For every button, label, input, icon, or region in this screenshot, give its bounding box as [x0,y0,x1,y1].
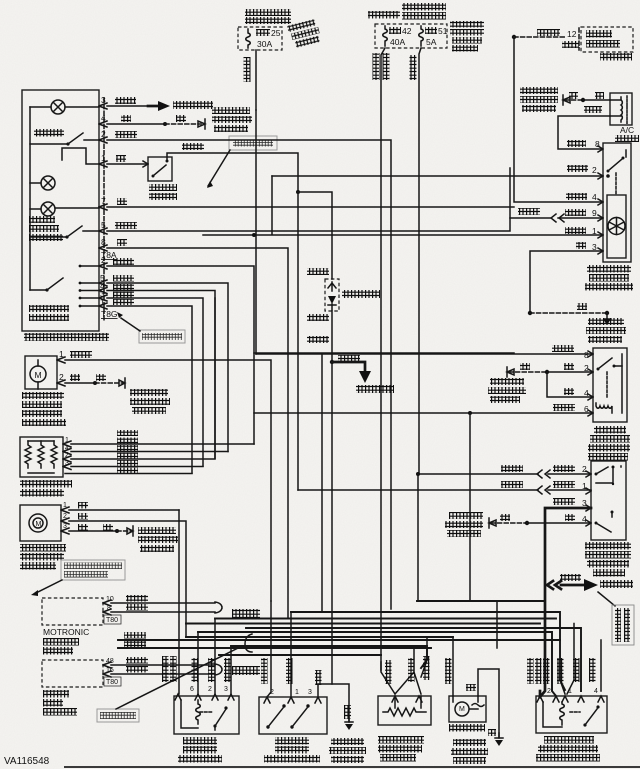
A/C diode D1 dashed box [325,279,339,311]
A/C clutch coil winding [610,96,627,124]
svg-text:1: 1 [295,689,299,696]
M3 motor symbol [453,696,484,716]
vertical wire labels K3 [527,658,596,684]
wire M2-2 绿 [69,520,179,522]
wire label 黑/蓝 [113,258,134,265]
wire drop x231 [230,646,232,694]
wire panel T8G pin1 黑/绿 [107,306,192,473]
svg-text:MOTRONIC: MOTRONIC [43,627,89,637]
label: 接地点202(熔断器/继电器板侧) G202f [451,739,488,764]
svg-text:8: 8 [107,605,111,612]
svg-text:2: 2 [582,464,587,474]
svg-text:2: 2 [208,686,212,693]
svg-text:25: 25 [271,28,281,38]
pin numbers panel [100,95,106,307]
mesh wire y623 [186,623,540,625]
R2 resistor element [383,696,426,716]
wire drop x552 to K3 [551,632,553,691]
svg-text:4: 4 [594,688,598,695]
mesh wire y655 [219,654,381,656]
fuse F25 value 25 30A [256,28,281,49]
R1 pin arrows [63,437,71,470]
svg-text:42: 42 [402,26,412,36]
svg-text:1: 1 [582,481,587,491]
svg-text:5A: 5A [426,37,437,47]
K1 pin arrows [588,351,593,416]
label: 接地点202(熔断器/继电器板侧) [586,318,626,343]
recirculation switch blade [30,226,99,239]
A/C switch blade [30,133,99,146]
wire label 绿 [117,198,127,205]
svg-text:3: 3 [592,242,597,252]
svg-text:M: M [36,521,42,528]
panel interior rail [29,107,31,290]
wire M2-1 灰 rise [178,510,180,694]
K1 internal dashed link [606,372,608,397]
svg-text:2: 2 [63,513,67,520]
label: 冷却风扇温控开关(散热器左下侧) [264,737,320,763]
wire main 黑/黄 [118,639,560,641]
wire pin3 棕 to ground line [530,251,603,313]
wire drop x267 to S2 [267,601,271,697]
label: A/C 离合器 [615,125,639,142]
wire M2-1 灰 [69,509,179,511]
wire label 黑/灰 [126,604,148,611]
label: A/C压力开关(A/C冷凝器右侧右前照灯下侧) [585,542,631,577]
wire label 黑/红 pin6 [553,404,589,414]
wire label 黑/蓝 [501,465,523,472]
S2 contact blades [266,704,309,728]
wire S1 pin1 棕/蓝 from 黑/红 [298,486,591,494]
wire label 棕 pin3 [576,242,597,252]
wire label 黑/蓝 [115,222,137,229]
label: 新鲜空气鼓风机串联电阻 [20,480,72,497]
wire label 棕/白 pin2 [553,464,587,474]
connector labels T8A / T8G [101,250,118,319]
svg-text:2: 2 [59,372,64,382]
wire K1 pin8 棕/黑 from left [256,353,593,355]
wire label 灰/蓝 [115,97,136,104]
svg-text:T80: T80 [106,679,118,686]
wire 蓝/紫 vertical down to module pin4 [514,37,603,202]
wire from fuse F25 down [255,50,257,110]
label: 冷却风扇第一转速控制继电器 [178,737,222,763]
recirculation flap servo motor M2 box [20,505,61,541]
svg-text:T8G: T8G [101,309,118,319]
wire label 蓝/紫 [537,29,560,36]
label: A/C二极管 [342,290,380,298]
ground G202c dashed 棕 to K1 pin2 and pin4 [507,367,593,397]
fresh air blower motor M1 box [25,356,57,389]
wire label 棕 pin4 [564,388,589,398]
cooling fan 2nd speed relay K3 box [536,696,607,733]
K1 internal switch [597,354,623,371]
wire label 黑/红 [501,481,523,488]
footer doc number VA116548 [4,756,50,767]
A/C pressure switch S1 box [591,461,626,540]
svg-text:4: 4 [584,388,589,398]
label: 冷却风扇 [449,724,485,732]
connector label T80 [104,677,121,686]
svg-text:30A: 30A [257,39,272,49]
wire label 黑/蓝 [518,208,540,215]
diesel pin arrows 48 / 16 [103,658,114,677]
U1 internal dashed link [615,173,617,195]
wire MOTRONIC pin8 黑/灰 [111,611,215,613]
wire drop x291 to S2 [290,612,292,697]
vertical wire labels R2 红/白 [385,656,430,684]
heater A/C control panel box [22,90,99,331]
M1 pin arrows [57,349,65,386]
label: 柴油机 [232,666,260,675]
svg-text:3: 3 [101,95,106,105]
MOTRONIC pin arrows 10 / 8 [103,596,114,615]
svg-text:2: 2 [270,689,274,696]
fuse F51 value 熔丝51 5A [425,26,448,47]
label: 冷却风扇第二转速控制继电器(8区辅助继电器板) [536,736,600,762]
S1 internal contacts [595,466,622,533]
K3 coil [543,702,564,727]
label: 新鲜/再循环空气开关 [29,216,63,241]
blower series resistor R1 box [20,437,63,477]
wire label 黑/蓝 pin2 [567,165,597,175]
wire R1-1 黑/绿 [71,443,254,445]
vertical wire labels S2 [261,658,322,685]
wire label 棕 [577,303,587,310]
wire 黑/红 branch to diode [296,190,332,279]
svg-text:8: 8 [584,350,589,360]
ground G202d dashed 棕 to S1 pin4 [489,518,591,528]
wire label 灰 [117,239,127,246]
wire labels stack 黑/绿 黑/白 黑/蓝 黑/黄 黑/紫 [117,430,138,474]
mesh wire y646 [231,646,427,668]
panel lamp L3 [30,202,99,216]
label: 冷却风扇串联电阻(底盘纵梁左前侧) [378,736,424,762]
wire pin2 黑/蓝 [272,174,610,178]
wire panel pin3 灰/蓝 to interior lights [107,101,170,111]
wire label 棕 [595,92,604,99]
label: 8区辅助继电器板(仪表板左下侧) [450,21,484,52]
blower switch contacts [79,265,99,308]
wire M2-2 绿 rise [179,521,186,637]
svg-text:A/C: A/C [620,125,634,135]
svg-text:2: 2 [101,129,106,139]
wire label 黑/黄 [126,595,148,602]
mesh wire y601 [417,600,545,602]
wire label 黑/绿 [113,299,134,305]
note leader to splice note [598,592,615,606]
wire x497 drop [496,601,498,648]
wire label 红/绿 pin3 [553,498,587,508]
wire diode down to defogger junction [330,311,334,364]
M2 pin arrows [61,502,69,534]
wire M1 pin2 棕 dashed to ground [65,378,125,388]
diesel control module box (dashed) [42,660,103,687]
svg-text:40A: 40A [390,37,405,47]
K3 pin numbers [547,688,598,695]
page edge line [64,766,640,768]
svg-text:8: 8 [101,237,106,247]
label: 接地点202(熔断器/继电器板侧) [212,107,252,132]
fan M3 pin2 to ground G202f [478,669,503,746]
wire label 棕 pin4 [565,514,587,524]
label: 至变速器 [600,580,633,588]
temp switch link [62,148,99,164]
wire fuse25 drop to blower circuit [255,110,257,354]
svg-text:3: 3 [63,523,67,530]
panel lamp L2 [30,176,55,190]
wire label 黑/绿 [113,284,134,290]
connector label T80 [104,615,121,624]
inline connector on 红/绿 [547,581,561,589]
label: 新鲜空气鼓风机(仪表板右后,风扇/蒸发器壳内) [22,392,66,426]
svg-text:7: 7 [101,196,106,206]
wire Y-join K3 mid pin [560,624,574,695]
K3 switch [570,705,600,726]
instrument cluster box 发动机过热指示 [581,27,633,52]
wire R1-2 黑/蓝 [71,298,215,459]
wire drop x198 [197,632,199,694]
ground G202a arrow [563,95,570,105]
wire drop x601 to K3 [600,640,602,691]
wire labels 灰 绿 棕 棕 [78,502,113,531]
svg-text:9: 9 [592,208,597,218]
label: 新鲜/再循环空气风门阀伺服电动机 [20,544,66,570]
wire label 黑/灰 [126,666,148,673]
wire label 红/绿 [560,574,581,581]
pin 12 [567,29,577,39]
S1 pin arrows [586,471,591,526]
wire drop x453 to fan M3 [452,637,454,696]
U1 internal switch [607,150,627,173]
svg-text:2: 2 [65,452,69,459]
wire 黑/红 down to pressure switch [297,192,299,490]
wire label 绿/黄 at pin8 [567,139,600,149]
wire label 黑/灰 pin1 [565,226,597,236]
mesh wire y628 with drop [246,628,581,691]
note tag 端子编号 [207,136,277,188]
svg-text:6: 6 [190,686,194,693]
M2 motor symbol [29,514,47,532]
wire mesh horizontal y353 [254,352,514,354]
wire label 蓝/紫 pin4 [566,192,597,202]
K2 switch [181,700,228,730]
wire label 灰 [116,155,126,162]
wire label 棕 [121,115,186,122]
fuse box F42/F51 (dashed) [375,24,447,48]
svg-text:48: 48 [106,658,114,665]
label: 内部灯系统 [173,101,213,109]
vertical wire label fan 红/白 [445,658,452,684]
wire label 棕/黑 vertical [244,57,251,82]
panel lamp L1 [30,100,99,114]
svg-text:2: 2 [592,165,597,175]
note tag 熔断器编号 [117,312,185,343]
svg-text:VA116548: VA116548 [4,756,50,767]
note tag 表示两种情况 [97,648,238,722]
label: 接地点202(熔断器/继电器板侧) left [488,378,526,403]
wire label 棕 pin2 [564,363,589,373]
fuse F42 symbol [383,26,388,46]
label: 接地点202(熔断器/继电器板侧) [130,389,170,414]
wire label 黑/紫 [115,131,137,138]
wire panel pin7 绿 [107,206,514,208]
wire main 黑/灰 [118,647,431,649]
wire 绿/黄 from coil to module pin8 [558,116,610,149]
brace main pair [245,634,252,652]
wire S1 pin2 棕/白 from 黑/蓝 [418,470,591,478]
wire to defogger system arrow [332,362,371,383]
wire 黑/红 from temp switch [167,153,298,192]
label: A/C切断控制模块(13区辅助继电器板上) [585,265,633,291]
wire label 黑/红 [182,143,204,150]
mesh wire y637 [186,636,453,638]
wire from fuse F42 down [381,48,385,670]
svg-text:4: 4 [101,113,106,123]
svg-text:3: 3 [224,686,228,693]
wire label 黑/绿 pin9 [565,208,597,218]
cooling fan series resistor R2 box [378,696,431,725]
wire pin9 黑/绿 with inline connector [510,214,603,222]
wire 红/绿 branch to transmission arrow [561,579,598,591]
wire label 黑/黄 [126,657,148,664]
wire R1-4 黑/白 [71,451,228,453]
note tag 虚线框表示部件的一部分 [31,560,125,596]
K2 pin numbers [190,686,228,693]
wire label 黑/黄 at junction [338,355,360,362]
wire drop x215 [214,619,216,695]
K3 pin entry arrows [537,696,604,702]
wire thick 红/绿 into K3 [539,691,542,697]
wire label 棕/蓝 pin1 [553,481,587,491]
cooling fan 1st speed relay K2 box [174,696,239,734]
wire S1 pin3 红/绿 thick [540,508,591,697]
wire mesh vertical x418 branch [416,472,420,601]
wire K1 pin6 黑/红 from left [254,412,593,414]
wire label 棕 [500,514,510,521]
cooling fan motor M3 box [449,696,486,722]
K1 coil [596,366,622,413]
node: 蓝/紫 junction [512,35,516,39]
R1 resistor elements [25,441,57,473]
svg-text:4: 4 [65,445,69,452]
label: (熔断器/继电器板侧)接地点202 [520,87,558,112]
ground wire dashed 棕 G202b [528,311,611,325]
S2 pin3 to ground G202e [318,684,353,730]
wire panel T8A pin2 黑/蓝 [107,266,254,444]
terminal strip T32B [562,28,579,50]
MOTRONIC engine control module box (dashed) [42,598,103,625]
label: A/C开关 [34,129,64,137]
label: 减载继电器激活时通电 [245,9,291,24]
wire diesel pin48 黑/黄 [111,664,215,666]
svg-text:3: 3 [308,689,312,696]
wire R1-3 黑/黄 [71,466,203,468]
wire label 黑/白 [113,292,134,298]
wire label 棕 [520,363,530,370]
svg-text:51: 51 [438,26,448,36]
label: 柴油机直喷控制模块 [43,690,77,716]
U1 internal box with fan symbol [607,195,626,258]
S2 pin numbers [270,689,312,696]
wire panel T8G pin3 黑/白 [107,298,203,466]
wire label 黑/黄 [307,336,329,343]
label: 暖风—空调控制板 [24,333,109,341]
svg-text:1: 1 [59,349,64,359]
wire label 黑/黄 [124,632,146,639]
wire extra 黑/紫 lower [65,473,192,475]
wire diesel pin16 黑/灰 [111,673,215,675]
R2 pin entry arrows [392,696,422,702]
fuse F42 value 熔丝42 40A [389,26,412,47]
wire MOTRONIC pin10 黑/黄 [111,602,215,604]
wire panel T8G pin4 黑/绿 [107,291,215,459]
wire label 绿/黄 [584,106,602,113]
svg-text:2: 2 [547,688,551,695]
label: 接地点202(熔断器/继电器板侧) for S1 [445,512,483,537]
D1 diode symbol [328,282,336,310]
svg-text:6: 6 [584,404,589,414]
mesh wire y609 with drop to K3 [215,618,556,620]
fuse F25 symbol [246,29,251,48]
vertical wire labels relay K2 [162,656,231,682]
wire module pin2 feed drop x272 [271,176,273,234]
wire panel pin8 灰 [107,248,288,619]
svg-text:3: 3 [65,460,69,467]
brace gasoline [215,602,222,613]
svg-text:2: 2 [584,363,589,373]
fuse F51 symbol [419,26,424,46]
label: 组合仪表 [600,53,632,61]
wire panel pin1 灰 to ambient temp switch [107,163,148,165]
A/C cutoff control module box U1 [603,143,631,262]
mesh wire y614 [291,612,565,690]
mesh wire y632 [198,632,556,696]
wire dashed 棕 to clutch coil [565,98,610,102]
label: 汽油机 [232,609,260,618]
svg-text:4: 4 [592,192,597,202]
blower switch blade [30,278,63,292]
wire 黑/黄 down to bottom mesh [331,362,333,684]
fuse box F25 (dashed, 熔丝25 30A) [238,27,282,50]
wire label 棕/黑 pin8 [552,345,589,360]
svg-text:M: M [35,370,42,380]
wire panel pin5 黑/蓝 [107,168,510,231]
svg-text:16: 16 [106,667,114,674]
label: 环境温度开关 [149,184,177,200]
brace diesel [215,664,222,675]
wire label 棕 [569,92,578,99]
wire mesh vertical x470 from pin6 line [468,411,472,601]
panel terminal arrows [99,103,107,309]
cooling fan control relay K1 box [593,348,627,422]
wire label 棕 vertical [344,705,351,719]
label: 新鲜空气鼓风机开关 [29,305,69,321]
label: 冷却风扇控制继电器(13区辅助继电器板上) [588,426,630,461]
label: 熔断器板(仪表板左下侧) slanted [287,19,322,49]
wire panel T8G pin5 黑/紫 [107,283,228,452]
svg-text:4: 4 [582,514,587,524]
svg-text:1: 1 [592,226,597,236]
label: MOTRONIC 发动机控制模块 [43,627,89,655]
svg-text:1: 1 [100,297,105,307]
wire M1 pin1 黑/绿 [65,360,271,601]
wire label 黑/绿 [70,351,92,358]
cooling fan thermo switch S2 box [259,697,327,734]
wire drops to R2 with Y-joins [381,637,427,694]
wire from fuse F51 down [419,48,421,474]
K2 inner link dashed [200,711,212,713]
